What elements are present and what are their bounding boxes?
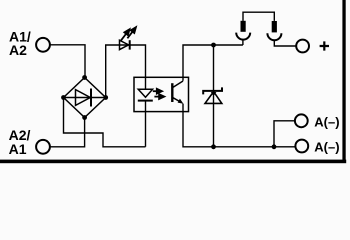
svg-text:A2: A2 — [9, 42, 27, 58]
svg-text:A(–): A(–) — [314, 114, 339, 129]
svg-text:A1: A1 — [9, 141, 27, 157]
svg-text:A(–): A(–) — [314, 139, 339, 154]
